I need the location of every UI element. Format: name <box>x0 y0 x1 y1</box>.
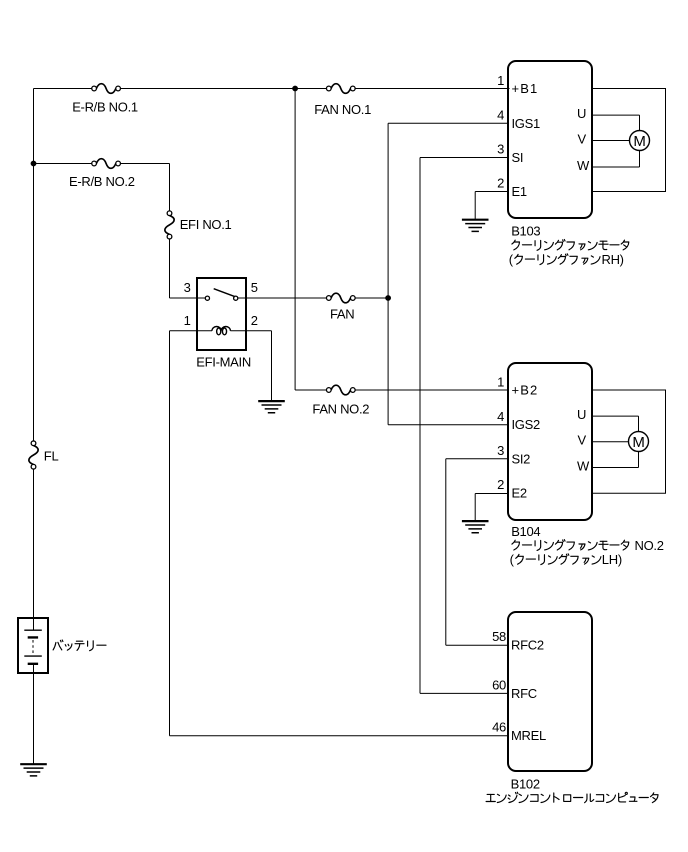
svg-text:3: 3 <box>497 142 504 157</box>
svg-text:1: 1 <box>497 73 504 88</box>
svg-text:(: ( <box>510 552 515 567</box>
svg-text:RFC2: RFC2 <box>511 638 544 653</box>
svg-text:W: W <box>577 158 590 173</box>
svg-text:U: U <box>577 106 586 121</box>
svg-text:U: U <box>577 407 586 422</box>
svg-text:B102: B102 <box>511 776 540 791</box>
svg-text:FAN NO.2: FAN NO.2 <box>312 401 369 416</box>
svg-text:RH): RH) <box>602 252 624 267</box>
svg-text:4: 4 <box>497 108 504 123</box>
svg-text:M: M <box>632 434 644 451</box>
svg-text:46: 46 <box>492 720 506 735</box>
svg-text:1: 1 <box>497 374 504 389</box>
svg-text:EFI-MAIN: EFI-MAIN <box>196 355 251 370</box>
svg-text:B104: B104 <box>511 524 540 539</box>
svg-text:E1: E1 <box>512 184 527 199</box>
svg-text:RFC: RFC <box>511 686 537 701</box>
svg-text:E2: E2 <box>512 485 527 500</box>
svg-text:SI2: SI2 <box>512 451 531 466</box>
svg-text:+B1: +B1 <box>512 81 539 96</box>
svg-text:W: W <box>577 458 590 473</box>
svg-text:SI: SI <box>512 150 524 165</box>
svg-text:LH): LH) <box>602 552 622 567</box>
svg-text:FL: FL <box>44 449 59 464</box>
svg-text:FAN: FAN <box>330 307 354 322</box>
svg-text:MREL: MREL <box>511 728 546 743</box>
svg-text:2: 2 <box>251 313 258 328</box>
svg-text:NO.2: NO.2 <box>635 538 664 553</box>
svg-text:IGS2: IGS2 <box>512 417 540 432</box>
svg-text:2: 2 <box>497 477 504 492</box>
svg-text:2: 2 <box>497 176 504 191</box>
svg-text:(: ( <box>509 252 514 267</box>
svg-text:IGS1: IGS1 <box>512 116 540 131</box>
svg-text:V: V <box>578 131 587 146</box>
svg-text:3: 3 <box>184 280 191 295</box>
svg-text:4: 4 <box>497 409 504 424</box>
svg-text:B103: B103 <box>511 223 540 238</box>
svg-text:V: V <box>578 433 587 448</box>
svg-text:E-R/B NO.2: E-R/B NO.2 <box>69 174 135 189</box>
svg-text:3: 3 <box>497 443 504 458</box>
svg-text:1: 1 <box>184 313 191 328</box>
svg-text:60: 60 <box>492 677 506 692</box>
svg-text:FAN NO.1: FAN NO.1 <box>314 102 371 117</box>
svg-text:EFI NO.1: EFI NO.1 <box>180 217 232 232</box>
svg-text:58: 58 <box>492 629 506 644</box>
svg-text:E-R/B NO.1: E-R/B NO.1 <box>72 100 138 115</box>
svg-text:+B2: +B2 <box>512 383 539 398</box>
svg-text:5: 5 <box>251 280 258 295</box>
svg-text:M: M <box>633 133 645 150</box>
